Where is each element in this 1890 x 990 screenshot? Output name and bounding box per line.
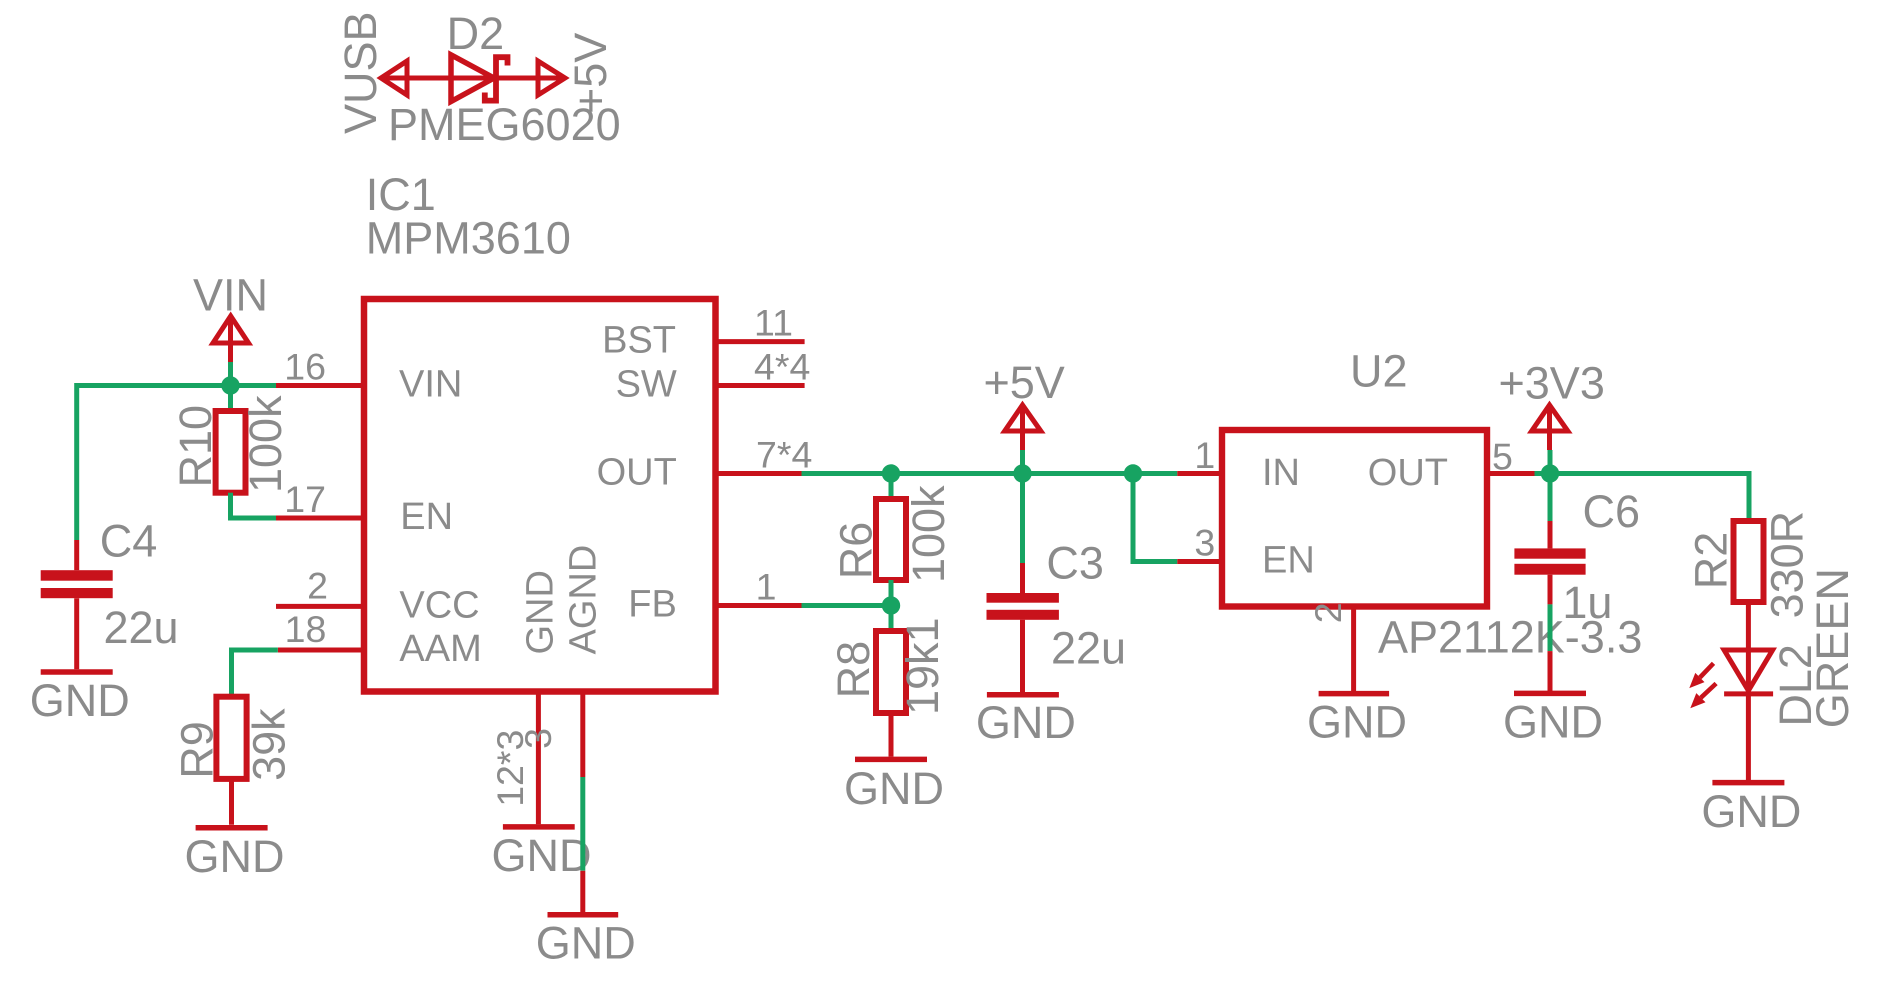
label DL2 value GREEN (rotated) <box>1807 568 1858 728</box>
pin IN 1 <box>1177 471 1222 476</box>
svg-text:+5V: +5V <box>984 357 1065 408</box>
svg-text:GND: GND <box>492 830 592 881</box>
wire <box>1746 602 1751 780</box>
capacitor C3 <box>987 563 1059 692</box>
svg-text:18: 18 <box>285 608 327 650</box>
svg-text:GND: GND <box>536 918 636 969</box>
wire <box>1548 604 1553 651</box>
supply +5V symbol <box>1005 405 1041 450</box>
label DL2 name (rotated) <box>1770 644 1821 727</box>
svg-text:3: 3 <box>517 728 559 749</box>
svg-text:1u: 1u <box>1562 577 1612 628</box>
svg-text:2: 2 <box>307 564 328 606</box>
svg-text:BST: BST <box>602 320 676 362</box>
ground under C6 <box>1503 693 1603 747</box>
svg-text:GND: GND <box>976 697 1076 748</box>
svg-text:100k: 100k <box>903 485 954 583</box>
wire <box>232 648 278 653</box>
pin number 3 (rotated) <box>517 728 559 749</box>
pin EN 17 <box>276 516 364 521</box>
svg-text:+3V3: +3V3 <box>1499 358 1605 409</box>
wire <box>228 386 233 412</box>
wire <box>580 871 585 912</box>
svg-text:R6: R6 <box>831 522 882 580</box>
wire <box>1133 559 1177 564</box>
wire <box>228 493 233 521</box>
svg-text:GND: GND <box>520 570 562 654</box>
wire to U2 EN <box>1131 474 1136 565</box>
label R8 value 19k1 (rotated) <box>897 617 948 715</box>
svg-text:GND: GND <box>1503 696 1603 747</box>
svg-text:VUSB: VUSB <box>335 11 386 134</box>
svg-text:GREEN: GREEN <box>1807 568 1858 728</box>
ground under R9 <box>185 828 285 882</box>
svg-text:3: 3 <box>1194 522 1215 564</box>
svg-text:GND: GND <box>844 763 944 814</box>
resistor R2 <box>1734 521 1764 602</box>
svg-text:R2: R2 <box>1685 532 1736 590</box>
pin number 12*3 (rotated) <box>489 730 531 807</box>
wire <box>889 713 894 757</box>
wire <box>229 648 234 697</box>
wire <box>889 580 894 606</box>
resistor R9 <box>216 697 246 779</box>
svg-text:D2: D2 <box>447 8 505 59</box>
ground under IC1 AGND pin <box>536 915 636 969</box>
svg-text:39k: 39k <box>243 708 294 781</box>
wire <box>77 383 276 388</box>
pin name GND (rotated) <box>520 570 562 654</box>
svg-text:1: 1 <box>756 566 777 608</box>
svg-text:16: 16 <box>284 346 326 388</box>
supply VUSB arrow <box>381 61 407 95</box>
svg-text:GND: GND <box>1307 697 1407 748</box>
svg-text:OUT: OUT <box>597 452 677 494</box>
svg-text:100k: 100k <box>240 395 291 493</box>
LED DL2 <box>1724 650 1773 694</box>
capacitor C4 <box>41 540 113 669</box>
wire <box>1548 450 1553 521</box>
node VUSB label <box>335 11 386 134</box>
wire <box>74 383 79 540</box>
pin GND 2 <box>1351 607 1356 692</box>
pin EN 3 <box>1177 559 1222 564</box>
pin GND 12*3 <box>536 692 541 825</box>
ground under R8 <box>844 759 944 814</box>
pin SW 4*4 <box>716 383 805 388</box>
svg-text:EN: EN <box>400 496 453 538</box>
junction <box>1013 464 1031 482</box>
wire <box>1747 474 1752 522</box>
pin number 2 (rotated) <box>1307 602 1349 623</box>
svg-text:11: 11 <box>754 301 793 343</box>
svg-text:VIN: VIN <box>193 270 268 321</box>
svg-text:OUT: OUT <box>1368 452 1448 494</box>
svg-text:VCC: VCC <box>399 584 479 626</box>
wire <box>889 474 894 500</box>
svg-text:R8: R8 <box>828 641 879 699</box>
label R6 value 100k (rotated) <box>903 485 954 583</box>
IC U2 box <box>1222 430 1487 607</box>
pin AGND 3 <box>580 692 585 778</box>
wire <box>580 777 585 871</box>
svg-text:22u: 22u <box>1051 623 1126 674</box>
label R2 name (rotated) <box>1685 532 1736 590</box>
svg-text:VIN: VIN <box>399 364 462 406</box>
capacitor C6 <box>1514 521 1585 604</box>
supply VIN symbol <box>213 316 249 362</box>
svg-text:MPM3610: MPM3610 <box>366 212 571 263</box>
svg-text:U2: U2 <box>1350 346 1408 397</box>
wire FB net <box>802 603 892 608</box>
wire <box>228 362 233 386</box>
wire <box>231 516 277 521</box>
pin BST 11 <box>716 339 805 344</box>
svg-text:7*4: 7*4 <box>756 434 812 476</box>
ground under LED <box>1701 783 1801 837</box>
pin FB 1 <box>716 603 802 608</box>
op-amp U1 equivalent: IC IC1 box <box>364 299 716 692</box>
wire <box>889 606 894 632</box>
label R2 value 330R (rotated) <box>1762 511 1813 619</box>
label R10 value 100k (rotated) <box>240 395 291 493</box>
wire <box>381 76 565 81</box>
svg-text:R9: R9 <box>172 721 223 779</box>
svg-text:1: 1 <box>1194 434 1215 476</box>
svg-text:EN: EN <box>1262 540 1315 582</box>
wire <box>1548 651 1553 691</box>
svg-text:AAM: AAM <box>399 628 481 670</box>
label R6 name (rotated) <box>831 522 882 580</box>
svg-text:C6: C6 <box>1583 486 1641 537</box>
wire <box>229 779 234 825</box>
junction <box>1541 464 1559 482</box>
pin OUT 5 <box>1488 471 1535 476</box>
junction <box>882 596 900 614</box>
pin VCC 2 <box>276 604 364 609</box>
node +5V label (rotated) <box>565 33 616 114</box>
svg-text:330R: 330R <box>1762 511 1813 619</box>
wire <box>1020 474 1025 564</box>
svg-text:GND: GND <box>185 831 285 882</box>
ground under U2 <box>1307 694 1407 748</box>
pin name AGND (rotated) <box>562 545 604 655</box>
svg-text:IN: IN <box>1262 452 1300 494</box>
svg-text:GND: GND <box>1701 786 1801 837</box>
label R9 value 39k (rotated) <box>243 708 294 781</box>
wire <box>1020 450 1025 474</box>
svg-text:5: 5 <box>1492 436 1513 478</box>
resistor R8 <box>876 631 906 713</box>
svg-text:C4: C4 <box>100 515 158 566</box>
wire OUT 3V3 net <box>1535 471 1752 476</box>
pin OUT 7*4 <box>716 471 802 476</box>
resistor R6 <box>876 499 906 580</box>
svg-text:FB: FB <box>628 584 677 626</box>
wire OUT net <box>802 471 1178 476</box>
svg-text:GND: GND <box>30 675 130 726</box>
svg-text:19k1: 19k1 <box>897 617 948 715</box>
junction <box>882 464 900 482</box>
svg-text:22u: 22u <box>104 602 179 653</box>
pin VIN 16 <box>276 383 364 388</box>
LED arrow 2 <box>1690 684 1716 709</box>
pin AAM 18 <box>278 648 364 653</box>
resistor R10 <box>216 411 246 493</box>
label R8 name (rotated) <box>828 641 879 699</box>
LED arrow 1 <box>1689 663 1713 688</box>
svg-text:R10: R10 <box>170 405 221 488</box>
svg-text:2: 2 <box>1307 602 1349 623</box>
ground under IC1 GND pin <box>492 827 592 881</box>
supply +5V arrow right <box>538 61 565 95</box>
label R10 name (rotated) <box>170 405 221 488</box>
svg-text:AGND: AGND <box>562 545 604 655</box>
junction <box>1124 464 1142 482</box>
svg-text:SW: SW <box>616 364 677 406</box>
junction <box>221 376 239 394</box>
label R9 name (rotated) <box>172 721 223 779</box>
svg-text:4*4: 4*4 <box>754 345 810 387</box>
supply +3V3 symbol <box>1532 405 1568 450</box>
ground under C4 <box>30 672 130 726</box>
diode D2 <box>451 55 508 102</box>
ground under C3 <box>976 695 1076 748</box>
svg-text:C3: C3 <box>1046 537 1104 588</box>
svg-text:+5V: +5V <box>565 33 616 114</box>
